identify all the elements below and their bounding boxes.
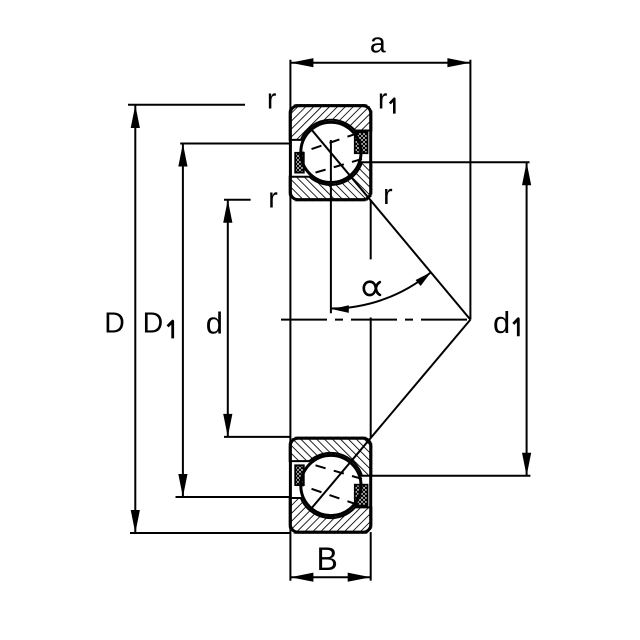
svg-text:D: D bbox=[143, 308, 164, 340]
svg-text:r: r bbox=[378, 83, 388, 115]
svg-text:r: r bbox=[383, 179, 393, 211]
svg-text:r: r bbox=[267, 83, 277, 115]
svg-text:d: d bbox=[206, 306, 223, 341]
svg-text:r: r bbox=[268, 182, 278, 214]
svg-text:d: d bbox=[493, 305, 510, 340]
svg-text:a: a bbox=[370, 27, 386, 59]
svg-text:B: B bbox=[317, 541, 338, 577]
svg-text:D: D bbox=[104, 308, 125, 340]
